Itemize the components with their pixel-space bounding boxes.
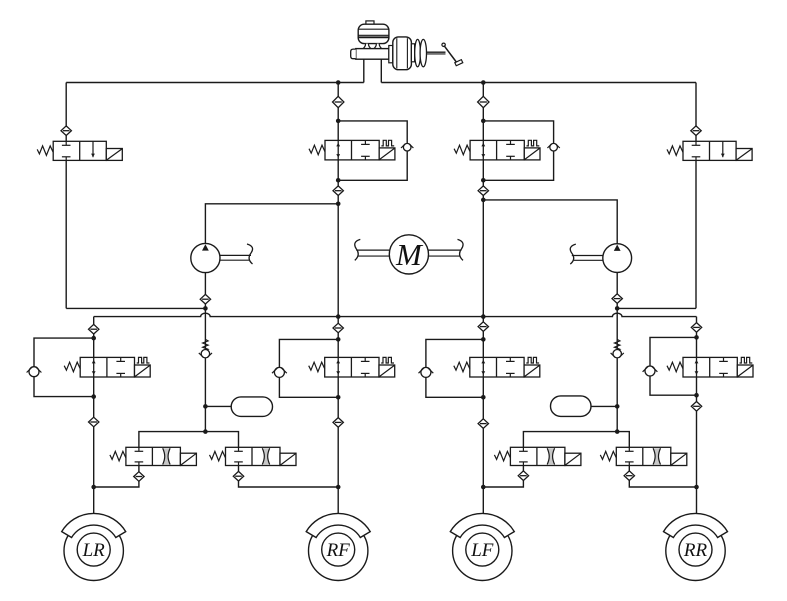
node V12 outlet / rail RR bbox=[694, 485, 699, 490]
ball check valve V3 bypass bbox=[547, 143, 559, 151]
wire V12 outlet to rail RR bbox=[629, 466, 696, 488]
check valve above V1 bbox=[61, 126, 71, 136]
check valve rail LF mid bbox=[478, 322, 488, 332]
solenoid valve V8 bbox=[667, 357, 753, 377]
bellows ring 2 bbox=[420, 39, 426, 66]
check valve below V6 loop bbox=[333, 418, 343, 428]
bellows ring 1 bbox=[415, 39, 421, 66]
solenoid valve V5 bbox=[64, 357, 150, 377]
wire V3 bypass loop bbox=[483, 121, 553, 180]
node V5 loop top bbox=[91, 336, 96, 341]
pushrod bbox=[427, 51, 446, 53]
check valve rail RF mid bbox=[333, 323, 343, 333]
wire master cylinder left port bbox=[363, 59, 365, 83]
check valve below V2 bbox=[333, 186, 343, 196]
svg-text:LR: LR bbox=[82, 540, 106, 561]
node V3 loop bottom bbox=[481, 178, 486, 183]
node accumulator AC1 tee bbox=[203, 404, 208, 409]
node V10 outlet / rail RF bbox=[336, 485, 341, 490]
check valve above V4 bbox=[691, 126, 701, 136]
wire V7 bypass loop bbox=[426, 339, 483, 397]
node left bus / rail RF bbox=[336, 80, 341, 85]
wire rail RR bbox=[696, 317, 698, 487]
pump P2 bbox=[570, 244, 631, 273]
relief valve ball P1 line bbox=[199, 350, 212, 358]
node pump P1 suction tee bbox=[203, 306, 208, 311]
ball check valve V5 bypass bbox=[27, 367, 42, 377]
wire pump P1 suction line bbox=[204, 272, 206, 431]
check valve below V10 bbox=[233, 471, 243, 481]
wire pump P2 suction line bbox=[616, 272, 618, 431]
node pump P2 outlet tee bbox=[481, 198, 486, 203]
wire rail RF upper bbox=[337, 83, 339, 514]
wire left rail V1 drop bbox=[65, 83, 67, 309]
wheel brake LR bbox=[62, 513, 126, 580]
ball check valve V8 bypass bbox=[643, 366, 658, 376]
wheel brake RF bbox=[306, 513, 370, 580]
pedal lever bbox=[444, 46, 456, 62]
node V9 outlet / rail LR bbox=[91, 485, 96, 490]
reservoir cap bbox=[366, 21, 374, 24]
reservoir grommet left bbox=[363, 44, 372, 51]
wire wheel LR drop bbox=[93, 487, 95, 513]
svg-text:M: M bbox=[395, 237, 424, 272]
node V8 loop top bbox=[694, 335, 699, 340]
ball check valve V2 bypass bbox=[401, 143, 413, 151]
check valve below V9 bbox=[134, 472, 144, 482]
wire V8 bypass loop bbox=[650, 337, 697, 395]
wire pump P2 outlet bbox=[483, 200, 617, 244]
node V7 loop top bbox=[481, 337, 486, 342]
master cylinder body bbox=[356, 49, 389, 60]
check valve rail RR upper bbox=[691, 323, 701, 333]
wire right rail to pump P2 junction bbox=[617, 307, 696, 309]
reservoir grommet right bbox=[373, 44, 382, 51]
wire V11 outlet to rail LF bbox=[483, 466, 523, 488]
master cylinder nose bbox=[351, 49, 356, 59]
wire V9 outlet to rail LR bbox=[94, 466, 139, 488]
relief valve ball P2 line bbox=[611, 350, 624, 358]
solenoid valve V7 bbox=[454, 357, 540, 377]
wire V2 bypass loop bbox=[338, 121, 407, 180]
vacuum booster bbox=[393, 37, 412, 70]
check valve below V5 loop bbox=[89, 417, 99, 427]
solenoid valve V11 bbox=[494, 447, 581, 465]
ball check valve V7 bypass bbox=[419, 367, 434, 377]
reservoir bbox=[358, 24, 389, 43]
check valve below V11 bbox=[518, 471, 528, 481]
node V5 loop bottom bbox=[91, 394, 96, 399]
solenoid valve V6 bbox=[309, 357, 395, 377]
svg-text:RF: RF bbox=[326, 540, 351, 561]
wire V9 V10 feed header bbox=[139, 432, 239, 448]
check valve pump P1 suction bbox=[200, 294, 210, 304]
node V11 outlet / rail LF bbox=[481, 485, 486, 490]
node pump P1 outlet tee bbox=[336, 202, 341, 207]
check valve below V3 bbox=[478, 186, 488, 196]
relief valve spring P2 line bbox=[615, 339, 620, 350]
svg-text:LF: LF bbox=[470, 540, 494, 561]
node V6 loop bottom bbox=[336, 395, 341, 400]
solenoid valve V4 bbox=[667, 141, 752, 160]
ball check valve V6 bypass bbox=[272, 367, 287, 377]
accumulator AC1 bbox=[231, 397, 272, 417]
motor M bbox=[355, 235, 463, 274]
node accumulator AC2 tee bbox=[615, 404, 620, 409]
booster flange bbox=[389, 46, 393, 63]
solenoid valve V1 bbox=[37, 141, 122, 160]
node V8 loop bottom bbox=[694, 393, 699, 398]
wire accumulator AC2 stem bbox=[591, 405, 617, 407]
node V2 loop top bbox=[336, 119, 341, 124]
wheel brake RR bbox=[664, 513, 728, 580]
node return manifold / rail LF bbox=[481, 314, 486, 319]
wire right rail V4 drop bbox=[695, 83, 697, 309]
wire rail LR bbox=[93, 317, 95, 487]
check valve rail LF upper bbox=[478, 96, 489, 107]
relief valve spring P1 line bbox=[203, 339, 208, 350]
solenoid valve V12 bbox=[600, 447, 687, 465]
wire return manifold with crossovers bbox=[94, 313, 697, 316]
wheel brake LF bbox=[450, 513, 514, 580]
solenoid valve V10 bbox=[210, 447, 297, 465]
wire accumulator AC1 stem bbox=[205, 405, 231, 407]
wire right supply bus bbox=[381, 82, 696, 84]
svg-text:RR: RR bbox=[683, 540, 708, 561]
solenoid valve V2 bbox=[309, 140, 395, 160]
pedal pad bbox=[455, 60, 463, 66]
node right bus / rail LF bbox=[481, 80, 486, 85]
node feed header right tee bbox=[615, 429, 620, 434]
node V3 loop top bbox=[481, 119, 486, 124]
wire left rail to pump P1 junction bbox=[66, 307, 205, 309]
node return manifold / rail RF bbox=[336, 314, 341, 319]
node feed header left tee bbox=[203, 429, 208, 434]
check valve rail LR upper bbox=[89, 324, 99, 334]
pedal pivot eye bbox=[442, 43, 445, 46]
node V7 loop bottom bbox=[481, 395, 486, 400]
node V6 loop top bbox=[336, 337, 341, 342]
wire left supply bus bbox=[66, 82, 364, 84]
wire V6 bypass loop bbox=[279, 339, 338, 397]
wire V10 outlet to rail RF bbox=[239, 466, 339, 488]
node pump P2 suction tee bbox=[615, 306, 620, 311]
check valve below V12 bbox=[624, 471, 634, 481]
solenoid valve V3 bbox=[454, 140, 540, 160]
solenoid valve V9 bbox=[110, 447, 196, 465]
booster neck bbox=[411, 44, 414, 62]
check valve below V8 loop bbox=[691, 402, 701, 412]
check valve rail RF upper bbox=[333, 96, 344, 107]
pump P1 bbox=[191, 243, 253, 272]
wire pump P1 outlet bbox=[205, 204, 338, 244]
check valve pump P2 suction bbox=[612, 294, 622, 304]
wire wheel RR drop bbox=[696, 487, 698, 513]
check valve below V7 loop bbox=[478, 419, 488, 429]
wire V11 V12 feed header bbox=[523, 432, 629, 448]
node V2 loop bottom bbox=[336, 178, 341, 183]
wire rail LF upper bbox=[482, 83, 484, 514]
wire V5 bypass loop bbox=[34, 338, 94, 397]
wire master cylinder right port bbox=[380, 59, 382, 83]
accumulator AC2 bbox=[551, 396, 592, 417]
